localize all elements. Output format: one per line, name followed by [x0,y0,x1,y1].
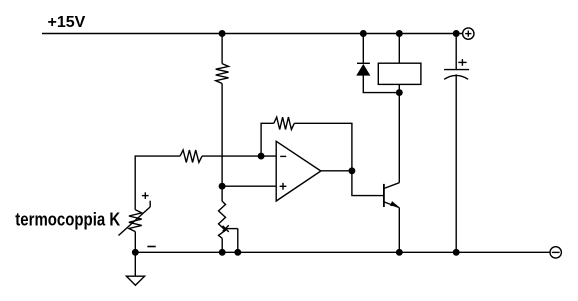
node: top rail / diode junction [360,30,367,37]
potentiometer P1 [219,201,238,238]
label: minus polarity of thermocouple [147,246,155,248]
terminal + (positive output) [463,28,474,39]
wire: collector to relay [398,93,400,183]
wire: thermocouple node to R2 [135,156,180,210]
wire: ground rail (bottom) [135,251,550,253]
wire: top rail to R1 [221,34,223,64]
wire: feedback to output node [294,123,352,171]
node: noninverting input / divider tap [219,183,226,190]
resistor R3 (feedback) [274,117,295,129]
wire: op-amp output [321,170,352,172]
wire: output to transistor base [352,171,384,196]
ground [126,252,144,285]
svg-text:termocoppia K: termocoppia K [15,209,120,230]
wire: thermocouple bottom to ground rail [134,232,136,253]
node: top rail / relay junction [396,30,403,37]
svg-text:+15V: +15V [48,14,86,31]
node: inverting input / feedback junction [258,153,265,160]
node: thermocouple / ground rail junction [132,249,139,256]
wire: feedback left riser [261,123,274,156]
diode D1 (flyback) [357,34,399,93]
wire: divider tap to op-amp + input [222,185,276,187]
relay coil K1 [378,34,421,93]
node: output junction [348,167,355,174]
node: top rail / capacitor junction [453,30,460,37]
node: relay bottom / diode junction [396,89,403,96]
thermocouple TC1 [119,192,151,235]
op-amp U1 [276,141,321,201]
node: wiper / rail [234,249,241,256]
resistor R2 [180,150,202,162]
node: capacitor / ground rail [453,249,460,256]
wire: divider tap down to potentiometer [221,186,223,201]
wire: R1 bottom to noninverting node [221,84,223,187]
wire: potentiometer bottom to ground rail [221,238,223,252]
capacitor C1 (electrolytic) [444,34,469,253]
wire: emitter to ground rail [398,208,400,253]
node: potentiometer bottom / rail [219,249,226,256]
wire: +15V top rail [42,33,463,35]
transistor Q1 [384,183,399,208]
terminal - (negative output) [550,247,561,258]
node: top rail / R1 junction [219,30,226,37]
wire: potentiometer wiper to ground rail [237,229,239,253]
node: emitter / ground rail [396,249,403,256]
resistor R1 [216,64,229,84]
wire: R2 to op-amp inverting input [202,155,276,157]
